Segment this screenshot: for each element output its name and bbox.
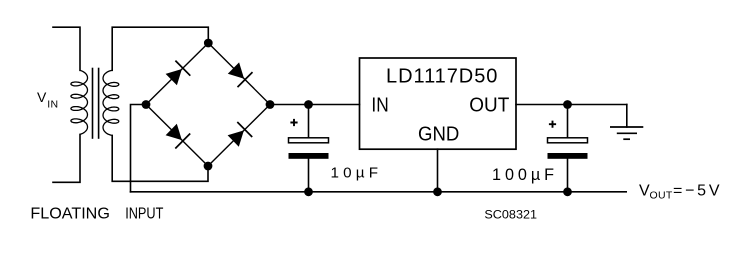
label VOUT = -5V [639, 183, 720, 202]
capacitor C2 top plate [548, 138, 588, 143]
diode D4 (bottom node to right node) [228, 122, 253, 147]
capacitor C1 plus sign [290, 119, 297, 126]
wire bridge edge left-top [146, 43, 208, 105]
transformer core [92, 69, 94, 139]
wire ground drop [626, 105, 628, 128]
svg-text:FLOATING: FLOATING [30, 205, 109, 222]
svg-text:=−5V: =−5V [673, 183, 720, 200]
wire regulator GND lead [437, 149, 439, 192]
svg-text:IN: IN [371, 95, 388, 117]
svg-text:LD1117D50: LD1117D50 [386, 66, 497, 88]
svg-text:V: V [37, 89, 47, 105]
wire C1 bottom lead [308, 159, 310, 192]
svg-text:GND: GND [418, 122, 459, 145]
capacitor C1 top plate [289, 138, 329, 143]
svg-text:INPUT: INPUT [125, 205, 164, 222]
node bridge top [204, 39, 213, 48]
node C2 top junction [563, 100, 572, 109]
node GND rail junction [433, 187, 442, 196]
regulator U1 LD1117D50 box [360, 58, 517, 149]
transformer T1 primary winding (left, 4 turns) [71, 70, 88, 134]
wire secondary top lead [112, 27, 208, 70]
diode D1 (left node to top node) [166, 61, 191, 86]
wire bridge left node to bottom rail [131, 105, 147, 192]
node C1 top junction [304, 100, 313, 109]
wire bottom rail [131, 191, 627, 193]
wire bridge right node to regulator IN [270, 104, 360, 106]
diode D2 (top node to right node) [228, 62, 253, 87]
node C2 bottom junction [563, 187, 572, 196]
wire bridge edge top-right [208, 43, 270, 105]
diode D3 (left node to bottom node) [166, 124, 191, 149]
svg-text:V: V [639, 183, 650, 200]
svg-text:OUT: OUT [469, 95, 509, 117]
wire secondary bottom lead [112, 135, 208, 181]
node C1 bottom junction [304, 187, 313, 196]
svg-text:OUT: OUT [650, 190, 673, 202]
node bridge bottom [204, 162, 213, 171]
capacitor C1 bottom plate [289, 153, 329, 159]
wire C1 top lead [308, 105, 310, 138]
wire primary top lead [53, 27, 80, 70]
svg-text:IN: IN [47, 98, 58, 110]
wire primary bottom lead [53, 134, 80, 182]
label VIN [37, 89, 58, 110]
bridge rectifier edges (wires) [146, 43, 270, 166]
capacitor C2 plus sign [549, 121, 556, 128]
transformer T1 secondary winding (right, 4 turns) [103, 70, 119, 135]
svg-text:SC08321: SC08321 [484, 208, 537, 222]
ground symbol [610, 127, 643, 139]
wire C2 bottom lead [567, 159, 569, 192]
node bridge left [142, 100, 151, 109]
wire C2 top lead [567, 105, 569, 138]
wire bridge edge bottom-right [208, 105, 270, 167]
node bridge right [266, 100, 275, 109]
capacitor C2 bottom plate [548, 153, 588, 159]
wire bridge edge left-bottom [146, 105, 208, 167]
wire regulator OUT to ground [516, 104, 627, 106]
